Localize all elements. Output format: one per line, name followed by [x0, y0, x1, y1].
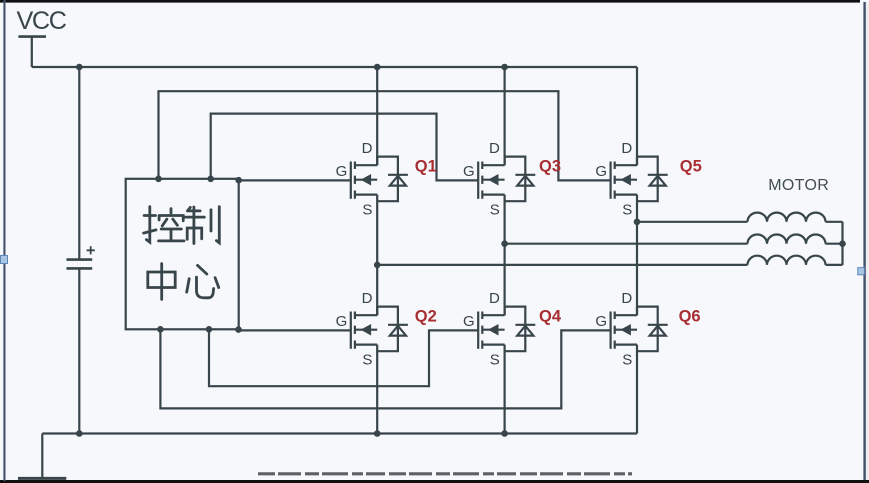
wire phase B tail [826, 243, 843, 245]
wire phase A [377, 264, 747, 266]
glyph 心 [187, 265, 219, 297]
node box top pin 2 [207, 176, 214, 183]
wire Q3 drain lead [504, 67, 506, 165]
transistor Q3 [463, 140, 535, 219]
node box top-right pin [235, 177, 242, 184]
wire capacitor branch lower [78, 268, 80, 433]
wire VCC drop [31, 36, 33, 68]
glyph 中 [148, 264, 175, 300]
svg-text:Q1: Q1 [415, 157, 437, 175]
node motor star point [839, 240, 846, 247]
wire Q5 drain lead [636, 67, 638, 165]
transistor Q1 [336, 140, 408, 219]
transistor Q5 [595, 140, 667, 219]
wire Q6 gate feed [160, 329, 610, 408]
node phase C junction [634, 219, 641, 226]
node ground rail / Q4 source [501, 430, 508, 437]
selection handle right [858, 268, 865, 275]
transistor Q2 [336, 290, 408, 369]
wire Q3-Q4 half-bridge link [504, 195, 506, 316]
svg-text:VCC: VCC [17, 7, 67, 35]
wire Q6 source lead [636, 345, 638, 434]
wire Q2 source lead [376, 345, 378, 434]
wire motor star point [841, 222, 843, 265]
svg-text:Q3: Q3 [539, 157, 561, 175]
node ground rail / cap branch [76, 430, 83, 437]
inductor motor winding C [748, 213, 826, 222]
node box top pin 1 [155, 176, 162, 183]
svg-text:Q4: Q4 [539, 308, 562, 326]
node ground rail / Q2 source [374, 430, 381, 437]
node top rail / Q1 drain [374, 64, 381, 71]
wire phase C tail [826, 221, 843, 223]
wire Q1 gate feed [239, 179, 351, 181]
wire Q2 gate feed [239, 329, 351, 331]
wire ground rail [42, 432, 637, 434]
wire top supply rail [32, 66, 637, 68]
node box bottom pin 1 [157, 326, 164, 333]
wire phase B [505, 243, 748, 245]
wire Q4 gate feed [209, 329, 478, 386]
svg-text:Q2: Q2 [415, 308, 437, 326]
node phase B junction [501, 240, 508, 247]
ground [18, 477, 66, 480]
transistor Q6 [595, 290, 667, 369]
wire Q1-Q2 half-bridge link [376, 195, 378, 316]
wire Q1 drain lead [376, 67, 378, 165]
svg-text:Q6: Q6 [679, 308, 701, 326]
glyph 控 [144, 207, 184, 243]
node phase A junction [374, 262, 381, 269]
transistor Q4 [463, 290, 535, 369]
caption text (cut off at bottom) [258, 472, 632, 475]
power VCC [17, 7, 67, 36]
capacitor C1 (polarized) [67, 246, 95, 268]
wire Q3 gate feed [211, 114, 479, 181]
node box bottom-right pin [235, 326, 242, 333]
wire capacitor branch upper [78, 67, 80, 259]
glyph 制 [184, 207, 219, 244]
svg-text:Q5: Q5 [680, 157, 702, 175]
node top rail / cap branch [76, 64, 83, 71]
inductor motor winding A [748, 256, 826, 265]
inductor motor winding B [748, 235, 826, 244]
node box bottom pin 2 [206, 326, 213, 333]
svg-text:MOTOR: MOTOR [768, 177, 829, 194]
wire phase C [637, 221, 748, 223]
wire Q5 gate feed [159, 91, 611, 180]
node top rail / Q3 drain [501, 64, 508, 71]
wire Q4 source lead [504, 345, 506, 434]
selection handle left [1, 256, 8, 264]
control block U1 控制中心 [126, 179, 239, 329]
wire ground drop [41, 434, 43, 478]
wire phase A tail [826, 264, 843, 266]
wire Q5-Q6 half-bridge link [636, 195, 638, 316]
